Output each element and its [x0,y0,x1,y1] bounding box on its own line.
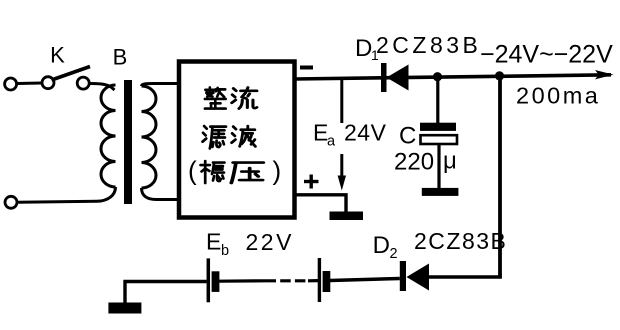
battery Eb cell 2 negative plate [323,271,331,292]
wire [294,195,346,212]
svg-text:): ) [273,156,282,186]
svg-text:K: K [50,43,65,68]
wire [437,144,440,189]
svg-text:−24V~−22V: −24V~−22V [480,41,613,69]
lower input terminal [5,196,17,208]
ground [108,303,141,314]
label 整流 row [205,87,257,108]
wire [330,279,400,281]
Ea measurement arrow [340,80,343,123]
node junction dot output [495,71,504,80]
svg-text:24V: 24V [344,120,387,146]
switch K terminal 3 [77,77,89,89]
transformer B secondary winding [142,86,157,188]
svg-text:(: ( [188,156,197,186]
svg-text:D: D [373,232,390,259]
wire [308,279,318,282]
svg-text:2: 2 [390,246,398,262]
switch K terminal 1 [5,78,17,90]
wire [125,282,207,304]
node minus output of U1 [300,66,313,70]
ground [330,212,364,221]
wire [219,279,266,283]
wire [18,187,116,202]
svg-text:220: 220 [394,149,434,176]
node junction dot C [433,72,442,81]
wire [90,84,115,91]
svg-text:a: a [327,134,336,150]
switch K blade [52,67,91,81]
capacitor C positive plate [420,123,456,131]
svg-text:2CZ83B: 2CZ83B [376,32,481,58]
battery Eb cell 1 negative plate [212,271,220,292]
wire [18,82,43,86]
wire right rail [498,76,502,277]
svg-text:200ma: 200ma [516,83,600,109]
rectifier-filter block U1 [179,62,295,218]
svg-text:D: D [355,35,372,62]
svg-text:b: b [221,243,229,259]
diode D2 [407,264,430,291]
wire [142,188,179,200]
wire dashed [266,279,309,282]
svg-text:2CZ83B: 2CZ83B [414,228,507,254]
diode D1 cathode bar [381,63,387,92]
battery Eb cell 1 positive plate [207,258,211,302]
wire [436,77,439,124]
diode D1 [387,65,409,91]
label 濾波 row [203,126,256,148]
node plus output of U1 [304,175,319,189]
wire [142,84,179,87]
svg-text:C: C [399,123,416,150]
svg-text:22V: 22V [246,229,294,255]
switch K terminal 2 [42,77,54,89]
svg-text:E: E [206,229,221,255]
svg-text:μ: μ [443,148,457,175]
capacitor C negative plate [421,135,458,144]
diode D2 cathode bar [400,261,406,291]
transformer B primary winding [101,85,116,187]
transformer B core [124,80,132,204]
svg-text:B: B [113,45,128,70]
output arrow [595,70,614,79]
wire top rail [294,75,611,79]
battery Eb cell 2 positive plate [318,258,321,302]
wire [429,275,502,279]
ground [422,188,459,196]
